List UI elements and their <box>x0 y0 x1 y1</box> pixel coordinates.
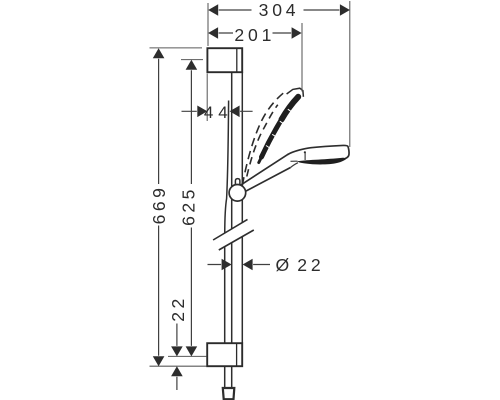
arrow 44 left <box>197 106 207 118</box>
svg-text:22: 22 <box>168 295 188 322</box>
svg-text:304: 304 <box>259 0 300 20</box>
holder pivot circle <box>229 185 246 202</box>
spray face dark crescent <box>297 158 346 165</box>
bottom wall bracket <box>207 343 242 366</box>
arrow 625 bottom <box>186 346 198 356</box>
arrow dia22 left <box>222 259 232 271</box>
svg-text:22: 22 <box>297 255 324 275</box>
svg-text:201: 201 <box>234 25 275 45</box>
wall bar right edge <box>241 72 243 343</box>
hand shower head body <box>288 145 350 159</box>
arrow 22 lower <box>171 366 183 376</box>
dim line 669 <box>158 59 160 356</box>
wall bar left edge <box>231 72 233 388</box>
phantom spray face dark band <box>282 97 299 120</box>
arrow 44 right <box>230 106 240 118</box>
holder knob nub <box>235 179 240 185</box>
arrow 669 bottom <box>153 356 165 366</box>
arrow 625 top <box>186 60 198 70</box>
svg-text:625: 625 <box>179 186 199 226</box>
hose break diagonal upper <box>213 219 247 240</box>
bottom bracket inner edge line <box>236 344 238 366</box>
phantom band segmentation notches <box>266 109 293 148</box>
phantom head cap outline <box>287 88 304 97</box>
arrow 304 left <box>208 4 218 16</box>
dim line 22 <box>176 324 178 391</box>
extension line bottom 625 <box>168 355 207 357</box>
svg-text:Ø: Ø <box>276 255 294 275</box>
arrow 22 upper <box>171 346 183 356</box>
shower hose left edge <box>225 101 229 388</box>
extension line below bracket left <box>206 74 208 122</box>
extension line bottom 669 <box>150 365 207 367</box>
extension line phantom head right <box>301 23 303 92</box>
svg-text:669: 669 <box>149 185 169 225</box>
hose break diagonal lower <box>219 230 254 250</box>
svg-text:44: 44 <box>204 103 233 122</box>
control tick on head <box>304 151 306 153</box>
arrow 201 left <box>208 27 218 39</box>
phantom handle dashed inner curve <box>247 105 278 177</box>
dim line diameter 22 <box>208 264 271 266</box>
hand shower handle <box>237 154 291 195</box>
hose end connector <box>223 388 235 399</box>
head neck crease upper <box>291 160 298 162</box>
top bracket inner edge line <box>236 49 238 72</box>
arrow 201 right <box>292 27 302 39</box>
dim line 625 <box>190 70 192 346</box>
extension line top 669 <box>150 47 203 49</box>
dim line 201 <box>219 32 292 34</box>
top wall bracket <box>207 48 242 72</box>
extension line head right <box>349 1 351 147</box>
arrow dia22 right <box>243 259 253 271</box>
arrow 669 top <box>153 48 165 58</box>
head neck crease lower <box>291 163 299 168</box>
extension line top 625 <box>181 59 203 61</box>
dim line 44 <box>182 110 253 112</box>
phantom handle dashed outer curve <box>242 91 285 185</box>
dim line 304 <box>219 9 340 11</box>
arrow 304 right <box>340 4 350 16</box>
extension line above bracket left <box>207 3 209 46</box>
